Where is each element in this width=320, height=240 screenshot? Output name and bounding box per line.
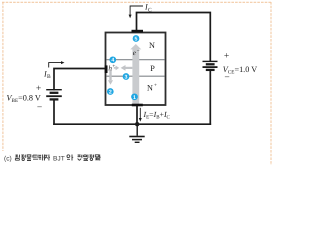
svg-text:−: − xyxy=(137,48,140,54)
node circle 5 xyxy=(133,35,140,42)
wire emitter: box bottom to rail xyxy=(136,104,138,124)
wire VBE battery to bottom rail xyxy=(53,100,55,125)
divider P/N+ xyxy=(106,75,164,77)
hole arrow down left side xyxy=(109,70,111,80)
battery VCE plate long xyxy=(203,66,218,68)
svg-text:P: P xyxy=(150,64,155,73)
BJT structure box xyxy=(106,33,166,106)
ground stem xyxy=(136,124,138,136)
battery VBE plate long xyxy=(46,95,62,97)
ground bar 2 xyxy=(132,139,142,141)
figure frame dashed left border xyxy=(2,2,4,151)
svg-text:4: 4 xyxy=(111,58,114,64)
node circle 1 xyxy=(131,93,138,100)
svg-text:+: + xyxy=(224,52,229,62)
ground bar 3 xyxy=(135,141,140,143)
svg-text:−: − xyxy=(224,73,229,83)
figure frame dashed top border xyxy=(2,1,272,3)
current arrow IB hook xyxy=(49,63,62,68)
terminal base blob xyxy=(105,65,108,73)
svg-text:B: B xyxy=(47,74,51,80)
figure frame dashed right border xyxy=(270,2,272,165)
junction node dot xyxy=(135,122,139,126)
battery VBE plate short thick xyxy=(50,98,59,100)
hole arrow left (recombination) xyxy=(126,67,133,69)
svg-text:(c): (c) xyxy=(4,155,12,162)
electron flow band arrow xyxy=(132,49,139,104)
battery VCE plate short thick xyxy=(206,63,215,65)
current arrow IC hook xyxy=(130,6,143,15)
svg-text:5: 5 xyxy=(135,37,138,43)
svg-text:C: C xyxy=(148,7,152,13)
caption hangul mock 의 전류성분 xyxy=(67,155,101,161)
hole arrow right small xyxy=(114,67,116,69)
wire base: battery up and right to box xyxy=(54,69,106,91)
svg-text:N: N xyxy=(149,41,155,50)
svg-text:N: N xyxy=(147,83,153,92)
bottom rail wire xyxy=(53,123,211,125)
terminal emitter blob xyxy=(132,104,143,107)
svg-text:3: 3 xyxy=(125,75,128,81)
wire collector: from box top up and right to VCE battery xyxy=(137,13,211,62)
divider N/P xyxy=(106,59,164,61)
svg-text:2: 2 xyxy=(109,90,112,96)
wire VCE to bottom rail xyxy=(209,71,211,125)
terminal collector blob xyxy=(132,30,144,33)
battery VBE plate long thin xyxy=(46,89,62,91)
svg-text:+: + xyxy=(154,82,157,88)
current arrow IE xyxy=(139,108,141,119)
battery VCE plate long thin xyxy=(203,60,218,62)
battery VCE plate short thick xyxy=(206,69,215,71)
svg-text:−: − xyxy=(37,103,42,113)
battery VBE plate short thick xyxy=(50,92,59,94)
svg-text:+: + xyxy=(112,64,115,70)
caption hangul mock 활성모드에서 xyxy=(15,155,50,161)
svg-text:1: 1 xyxy=(133,95,136,101)
ground bar 1 xyxy=(129,136,144,138)
node circle 2 xyxy=(107,88,114,95)
node circle 3 xyxy=(123,73,130,80)
node circle 4 xyxy=(109,56,116,63)
svg-text:BJT: BJT xyxy=(53,155,65,162)
